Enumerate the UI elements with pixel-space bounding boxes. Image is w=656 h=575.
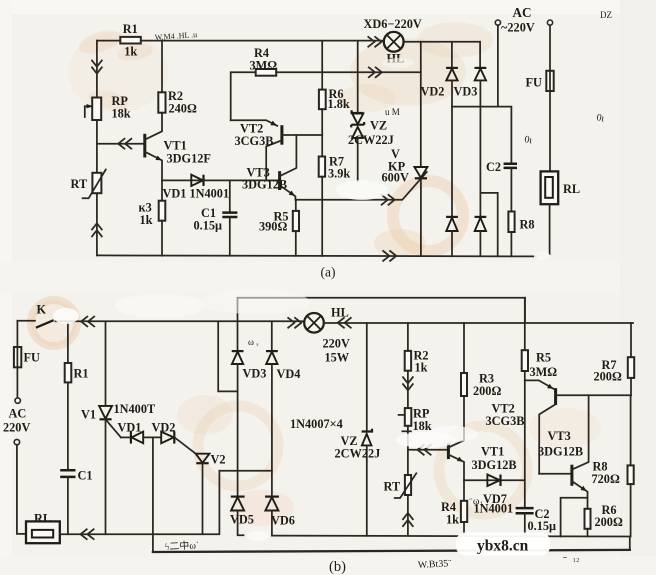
orange ring behind K switch: [31, 300, 77, 346]
svg-text:V1: V1: [81, 408, 96, 422]
resistor R1 (b): [65, 322, 72, 383]
wire: bridge lower step (b): [219, 470, 271, 472]
svg-text:DZ: DZ: [600, 10, 612, 20]
capacitor C1 0.15u: [222, 180, 237, 255]
white wash over wire right of K: [53, 308, 79, 324]
terminal AC left: [495, 20, 500, 25]
diode VD5 (b): [231, 497, 245, 536]
svg-text:VD1: VD1: [118, 421, 142, 435]
svg-text:1k: 1k: [446, 513, 459, 527]
wire: lower AC lead: [17, 445, 26, 534]
terminal AC upper (b): [15, 398, 20, 403]
svg-text:R8: R8: [520, 218, 535, 232]
svg-text:XD6−220V: XD6−220V: [364, 17, 422, 31]
svg-text:3DG12B: 3DG12B: [472, 458, 517, 472]
chevron up on left rail: [92, 223, 102, 236]
wire: VT3 emitter to KP gate: [295, 172, 426, 200]
svg-text:2CW22J: 2CW22J: [335, 447, 381, 461]
ybx8.cn watermark pill: [456, 533, 550, 556]
svg-text:VT1: VT1: [481, 445, 504, 459]
svg-text:3DG12B: 3DG12B: [538, 445, 583, 459]
svg-text:(a): (a): [321, 265, 336, 280]
svg-text:AC: AC: [9, 407, 27, 421]
white wash over rail gap between VD5 VD6: [247, 531, 269, 541]
svg-text:VD6: VD6: [271, 514, 295, 528]
resistor R7: [319, 157, 325, 256]
svg-text:390Ω: 390Ω: [259, 220, 287, 234]
resistor R8 (b): [628, 395, 634, 536]
thermistor RT: [83, 170, 106, 199]
resistor R3: [159, 180, 166, 255]
diode VD1 (b): [121, 431, 161, 443]
svg-text:1k: 1k: [415, 361, 428, 375]
resistor R2: [158, 41, 165, 113]
svg-text:3CG3B: 3CG3B: [235, 134, 274, 148]
svg-text:1N4007×4: 1N4007×4: [290, 417, 343, 431]
svg-text:C1: C1: [78, 469, 93, 483]
wire: VD7 wire: [464, 479, 525, 481]
diode VD5a lower-right of bridge: [475, 217, 487, 256]
orange swirl right (b): [439, 426, 527, 514]
chevron left near K: [81, 317, 94, 327]
wire: top rail (a) right segment: [404, 41, 480, 43]
diode VD4 (b): [266, 323, 278, 497]
svg-text:720Ω: 720Ω: [592, 472, 620, 486]
capacitor C2 (b): [516, 508, 534, 536]
svg-text:RT: RT: [71, 177, 88, 191]
svg-text:K: K: [37, 303, 47, 317]
resistor R4 (b): [461, 480, 467, 536]
svg-text:HL: HL: [331, 306, 349, 320]
white wash over bottom rail right end (a): [534, 251, 550, 261]
lamp HL XD6-220V: [384, 32, 404, 52]
chevron left on base wire: [418, 445, 431, 455]
zener VZ (b) 2CW22J: [362, 323, 372, 536]
svg-text:VZ: VZ: [370, 119, 387, 133]
diode VD2 (b): [161, 431, 196, 454]
diode VD3 (b): [232, 298, 244, 497]
orange swirl centre (b): [198, 406, 278, 486]
svg-text:VT1: VT1: [164, 139, 187, 153]
wire: AC left lead: [497, 25, 499, 106]
svg-text:220V: 220V: [3, 421, 30, 435]
svg-text:3DG12B: 3DG12B: [242, 178, 287, 192]
lamp HL (b): [304, 313, 324, 333]
wire: rail join at right end: [629, 537, 631, 550]
fuse FU (b): [14, 321, 21, 398]
svg-text:1k: 1k: [140, 213, 153, 227]
chevron right toward lamp: [288, 318, 301, 328]
svg-text:3.9k: 3.9k: [328, 167, 350, 181]
svg-text:RL: RL: [563, 182, 580, 196]
resistor R6: [319, 41, 326, 157]
switch K: [36, 320, 54, 328]
svg-text:220V: 220V: [323, 337, 350, 351]
svg-text:ybx8.cn: ybx8.cn: [477, 538, 529, 555]
fuse FU: [546, 25, 553, 171]
svg-text:VD4: VD4: [277, 367, 301, 381]
svg-text:200Ω: 200Ω: [594, 370, 622, 384]
svg-text:15W: 15W: [325, 351, 350, 365]
diode VD1 1N4001: [191, 175, 203, 186]
capacitor C2: [504, 164, 517, 212]
resistor R7 (b): [628, 323, 634, 395]
svg-text:1N400T: 1N400T: [114, 402, 156, 416]
svg-text:240Ω: 240Ω: [169, 102, 197, 116]
transistor VT3 3DG12B: [280, 135, 297, 200]
wire: bottom rail (a): [97, 255, 536, 256]
svg-text:C2: C2: [486, 160, 501, 174]
thermistor RT (b): [395, 450, 417, 535]
svg-text:3DG12F: 3DG12F: [167, 152, 211, 166]
diode VD4a lower-left of bridge: [446, 217, 458, 256]
wire: bottom rail A right segment: [272, 535, 630, 538]
load RL (b): [26, 521, 60, 543]
orange wash around lamp (a): [350, 38, 466, 106]
chevron on rail A: [81, 529, 94, 539]
svg-text:VD3: VD3: [243, 367, 267, 381]
diode VD7 1N4001: [487, 475, 500, 487]
chevron on bottom rail: [383, 251, 396, 261]
svg-text:u M: u M: [385, 107, 400, 117]
svg-text:3MΩ: 3MΩ: [530, 365, 558, 379]
transistor VT3 (b) 3DG12B: [539, 395, 588, 509]
diode VD3: [475, 42, 487, 217]
svg-text:200Ω: 200Ω: [473, 384, 501, 398]
wire: link top wire to VD3 column: [218, 322, 237, 391]
resistor R5: [293, 200, 299, 256]
resistor R2 (b): [405, 323, 411, 408]
svg-text:R1: R1: [123, 22, 138, 36]
resistor R3 (b): [461, 323, 467, 396]
svg-text:600V: 600V: [382, 171, 409, 185]
svg-text:~220V: ~220V: [501, 21, 535, 35]
svg-text:200Ω: 200Ω: [595, 515, 623, 529]
svg-text:R5: R5: [536, 351, 551, 365]
thyristor V2: [196, 454, 210, 535]
wire: bottom rail B: [153, 550, 630, 552]
wire: left rail (a): [96, 41, 98, 256]
svg-text:VT3: VT3: [548, 429, 571, 443]
svg-text:RT: RT: [384, 480, 401, 494]
wire: VD1-VD2 mid drop: [152, 437, 154, 552]
transistor VT2 (b) 3CG3B: [525, 380, 631, 473]
orange stamp near top-left: [68, 32, 168, 112]
diode VD6 (b): [265, 497, 279, 536]
wire: node VT1 emitter to VT3 base: [162, 179, 279, 181]
load RL: [541, 171, 559, 254]
capacitor C1 (b): [60, 382, 75, 534]
resistor R6 (b): [585, 509, 591, 537]
resistor R5 (b): [522, 298, 528, 508]
svg-text:VD2: VD2: [421, 85, 445, 99]
transistor VT1 (b) 3DG12B: [448, 396, 464, 480]
wire: bottom rail A left segment: [60, 533, 218, 535]
chevron down on left rail: [92, 60, 102, 73]
wire: bridge mid horizontal: [452, 107, 511, 164]
wire: main top wire right of lamp: [324, 322, 633, 324]
svg-text:1N4001: 1N4001: [474, 502, 514, 516]
wire: top rail (a) left segment: [97, 40, 384, 42]
white wash blob over RP/base area (b): [396, 432, 456, 448]
chevron down on R2 branch: [403, 377, 413, 390]
resistor R1: [120, 37, 141, 44]
transistor VT1 3DG12B: [97, 113, 162, 180]
terminal AC right: [547, 20, 552, 25]
svg-text:2CW22J: 2CW22J: [348, 133, 394, 147]
chevron on top rail before lamp: [368, 37, 381, 47]
svg-text:﹣ ₁₂: ﹣ ₁₂: [560, 552, 579, 563]
svg-text:AC: AC: [513, 5, 532, 20]
svg-text:R1: R1: [74, 367, 89, 381]
svg-text:W.Bt35¨: W.Bt35¨: [418, 558, 453, 571]
orange ring around KP: [393, 181, 463, 251]
svg-text:VD5: VD5: [230, 513, 254, 527]
svg-text:(b): (b): [329, 559, 346, 575]
svg-text:1k: 1k: [124, 45, 137, 59]
white wash over VZ(a) lower lead: [336, 180, 388, 200]
svg-text:ω ᵥ: ω ᵥ: [248, 337, 259, 347]
thyristor V KP 600V: [414, 42, 427, 256]
svg-text:18k: 18k: [413, 419, 432, 433]
resistor R8: [508, 212, 514, 257]
svg-text:0.15μ: 0.15μ: [528, 519, 557, 533]
svg-text:VD2: VD2: [152, 421, 176, 435]
svg-text:0.15μ: 0.15μ: [194, 219, 223, 233]
zener VZ 2CW22J: [351, 41, 364, 181]
wire: bridge right step: [480, 193, 497, 256]
svg-text:18k: 18k: [112, 106, 131, 120]
diode VD2: [446, 42, 458, 217]
transistor VT2 3CG3B: [231, 120, 323, 180]
chevron on R4 wire: [369, 67, 382, 77]
svg-text:3MΩ: 3MΩ: [250, 59, 278, 73]
svg-text:RL: RL: [34, 512, 51, 526]
svg-text:3CG3B: 3CG3B: [486, 414, 525, 428]
potentiometer RP (b): [399, 408, 412, 450]
svg-text:VD3: VD3: [454, 85, 478, 99]
wire: top border (b): [238, 297, 526, 299]
svg-text:VD1 1N4001: VD1 1N4001: [163, 187, 230, 201]
svg-text:FU: FU: [24, 351, 41, 365]
white wash below lamp (a): [382, 58, 414, 68]
svg-text:1.8k: 1.8k: [328, 97, 350, 111]
chevron up on RT branch: [403, 513, 413, 526]
wire: VT1b base wire: [408, 449, 448, 451]
chevron left toward lamp: [338, 318, 351, 328]
wire: main top wire after switch: [56, 320, 305, 322]
svg-text:V2: V2: [211, 453, 226, 467]
wire: emitter hook to rail: [561, 498, 588, 537]
wire: main top wire (b) left of lamp: [17, 320, 35, 322]
svg-text:FU: FU: [526, 76, 543, 90]
terminal AC lower (b): [14, 439, 19, 444]
thyristor V1: [99, 322, 121, 535]
wire: top border corner (b): [524, 298, 526, 323]
chevron on emitter wire: [382, 195, 395, 205]
potentiometer RP: [85, 98, 101, 121]
resistor R4: [231, 69, 421, 120]
